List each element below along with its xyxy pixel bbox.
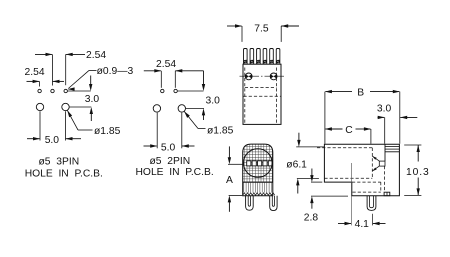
svg-text:C: C — [345, 125, 353, 136]
svg-text:2.8: 2.8 — [304, 213, 319, 224]
svg-text:ø6.1: ø6.1 — [286, 160, 307, 171]
svg-text:ø0.9—3: ø0.9—3 — [97, 66, 134, 77]
svg-text:HOLE IN P.C.B.: HOLE IN P.C.B. — [25, 168, 103, 179]
svg-text:7.5: 7.5 — [254, 23, 269, 34]
svg-text:ø1.85: ø1.85 — [207, 125, 234, 136]
svg-text:ø5 2PIN: ø5 2PIN — [150, 156, 191, 167]
svg-text:2.54: 2.54 — [25, 67, 45, 78]
svg-text:ø5 3PIN: ø5 3PIN — [39, 157, 80, 168]
svg-text:5.0: 5.0 — [161, 142, 176, 153]
svg-text:5.0: 5.0 — [45, 135, 60, 146]
svg-text:HOLE IN P.C.B.: HOLE IN P.C.B. — [136, 167, 214, 178]
svg-text:3.0: 3.0 — [206, 96, 221, 107]
svg-text:B: B — [357, 87, 364, 98]
svg-text:ø1.85: ø1.85 — [94, 126, 121, 137]
svg-text:4.1: 4.1 — [355, 219, 370, 230]
svg-text:10.3: 10.3 — [406, 167, 430, 178]
svg-text:3.0: 3.0 — [377, 103, 392, 114]
svg-text:2.54: 2.54 — [86, 50, 106, 61]
svg-text:3.0: 3.0 — [85, 94, 100, 105]
svg-text:2.54: 2.54 — [156, 59, 176, 70]
svg-text:A: A — [226, 175, 233, 186]
